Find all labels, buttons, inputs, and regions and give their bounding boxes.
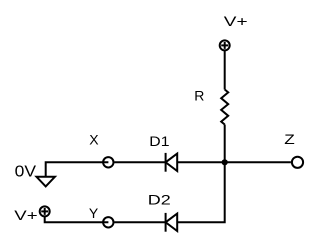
wire Y to D2 [114, 221, 165, 223]
ground 0V symbol [37, 177, 55, 187]
wire top V+ to resistor [224, 50, 226, 89]
svg-text:R: R [194, 87, 204, 103]
wire D2 to junction corner [177, 162, 225, 222]
wire X to D1 [114, 161, 165, 163]
terminal X [103, 157, 113, 167]
svg-text:V+: V+ [14, 207, 37, 223]
diode D1 [166, 153, 178, 172]
wire resistor to junction [224, 125, 226, 163]
svg-text:V+: V+ [224, 13, 248, 29]
wire ground to terminal X [46, 162, 109, 177]
svg-text:Z: Z [284, 131, 295, 147]
wire bottom V+ to terminal Y [45, 216, 109, 222]
diode D2 [166, 213, 178, 232]
terminal Z [292, 157, 303, 168]
power terminal V+ (top) [220, 40, 230, 50]
svg-text:X: X [89, 131, 99, 147]
svg-text:D1: D1 [149, 133, 169, 149]
wire D1 to junction to terminal Z [177, 161, 291, 163]
terminal Y [103, 217, 113, 227]
power terminal V+ (bottom) [40, 206, 50, 216]
svg-text:D2: D2 [148, 191, 171, 207]
svg-text:Y: Y [89, 205, 99, 221]
resistor R [221, 90, 228, 125]
junction node [222, 159, 228, 165]
svg-text:0V: 0V [15, 164, 37, 181]
